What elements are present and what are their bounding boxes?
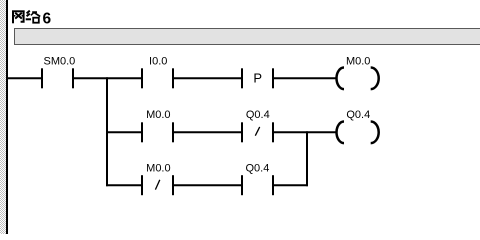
wire rail to SM0.0 [6, 77, 42, 79]
left power rail [6, 0, 8, 234]
contact P (positive edge) [242, 68, 273, 88]
svg-text:M0.0: M0.0 [146, 162, 170, 174]
svg-text:I0.0: I0.0 [149, 55, 167, 67]
contact Q0.4 normally closed [242, 109, 273, 142]
contact M0.0 normally closed row3 [142, 162, 173, 195]
svg-text:Q0.4: Q0.4 [346, 109, 370, 121]
wire P contact to coil M0.0 [273, 77, 336, 79]
wire Q0.4 row3 to right branch [273, 184, 308, 186]
network comment bar [15, 29, 480, 45]
wire branch to M0.0 row2 [106, 131, 142, 133]
coil M0.0 [337, 55, 379, 89]
svg-text:6: 6 [43, 10, 52, 27]
network title 网络 6 [12, 10, 52, 27]
wire I0.0 to P contact [173, 77, 242, 79]
wire M0.0 NC to Q0.4 row3 [173, 184, 242, 186]
left margin dither strip [0, 0, 7, 234]
wire Q0.4 NC to coil Q0.4 [273, 131, 336, 133]
coil Q0.4 [337, 109, 379, 143]
contact M0.0 row2 [142, 109, 173, 142]
svg-text:Q0.4: Q0.4 [245, 162, 269, 174]
wire branch to M0.0 NC row3 [106, 184, 142, 186]
svg-text:M0.0: M0.0 [346, 55, 370, 67]
svg-text:P: P [253, 71, 262, 86]
contact SM0.0 [42, 55, 75, 88]
contact I0.0 [142, 55, 173, 88]
right branch vertical [306, 131, 308, 186]
wire SM0.0 to I0.0 [73, 77, 142, 79]
svg-text:M0.0: M0.0 [146, 109, 170, 121]
left branch vertical [106, 77, 108, 186]
wire M0.0 to Q0.4 NC [173, 131, 242, 133]
svg-text:Q0.4: Q0.4 [246, 109, 270, 121]
svg-text:SM0.0: SM0.0 [44, 55, 76, 67]
contact Q0.4 row3 [242, 162, 273, 195]
